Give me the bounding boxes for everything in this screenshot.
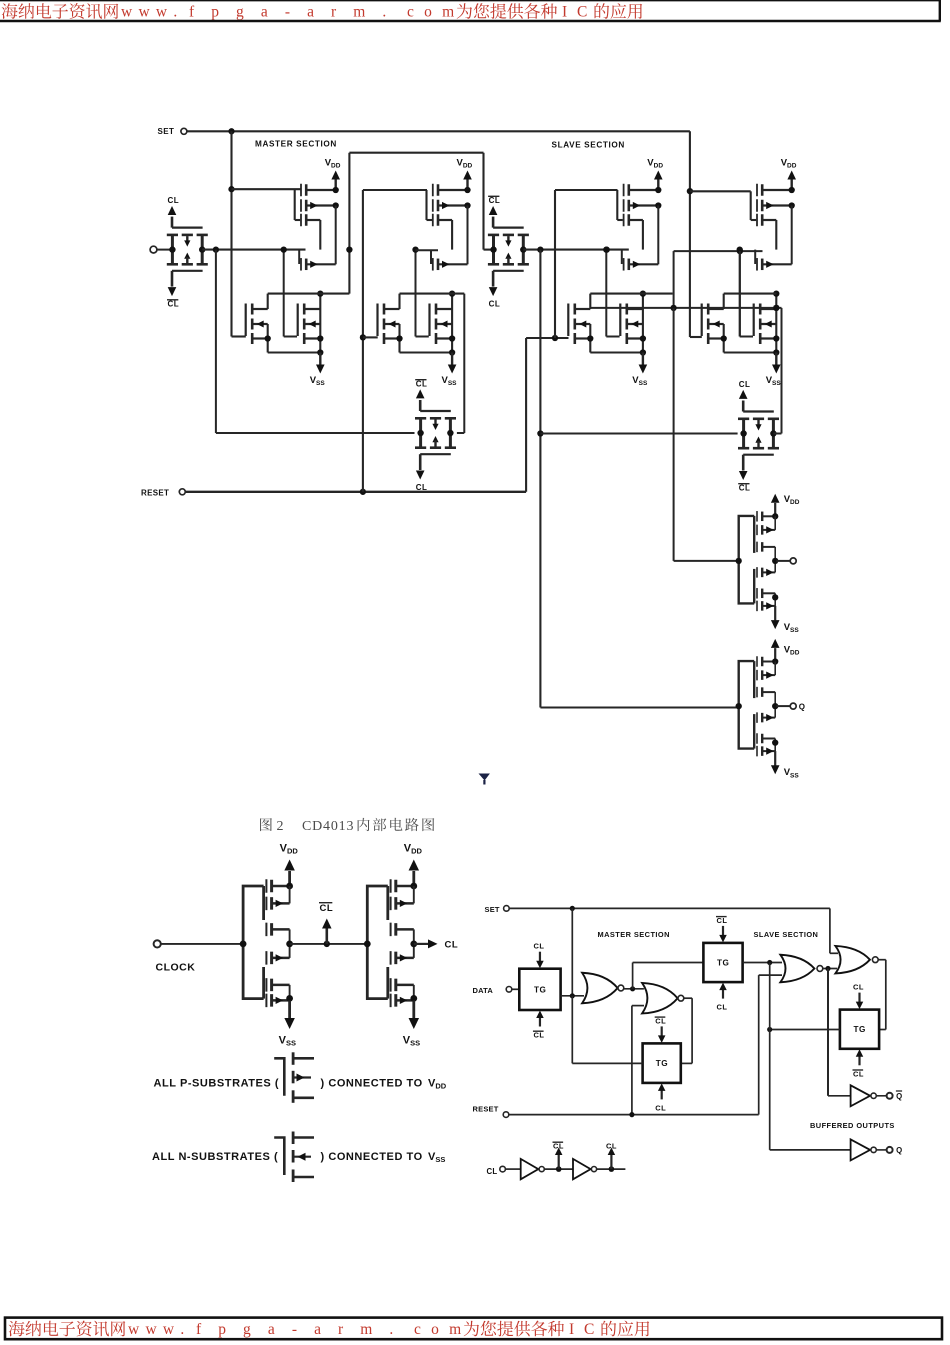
wire clock chain segment 1 [505, 1168, 520, 1170]
block block TG C [703, 943, 742, 982]
block TG B top clock arrow [658, 1026, 666, 1043]
Vdd arrow of slave gate 2 [787, 171, 796, 192]
wires drain rail of output buffer 1 [772, 513, 778, 606]
wire P1-P3 gate bracket of master gate 2 [427, 190, 433, 220]
transistor P2 of output buffer 1 [757, 525, 775, 536]
TG3 top clock label [415, 380, 427, 389]
transistor N1 of clock inverter 1 [266, 951, 289, 965]
wire Vdd rail of slave gate 2 [791, 206, 793, 265]
transistor N2 of clock inverter 2 [391, 978, 414, 992]
TG3 bottom clock bracket and arrow [416, 454, 451, 479]
label SET (block diagram) [485, 905, 500, 914]
gate bar of N1/N2 of slave gate 2 [701, 304, 703, 337]
wire clock input [161, 943, 243, 945]
inverter clock chain 2 [573, 1159, 597, 1179]
wire TG C out to NOR3 [743, 960, 782, 965]
Vdd label of slave gate 2 [781, 158, 797, 170]
svg-text:VSS: VSS [403, 1035, 420, 1048]
wire TG2 output to slave [523, 246, 629, 252]
Vss label of slave gate 1 [632, 375, 648, 387]
wire data input [157, 249, 172, 251]
transistors N1,N2 of master gate 1 [252, 304, 268, 345]
node P2 drain of slave gate 2 [789, 202, 795, 208]
transmission gate TG4 centre dashed bar [753, 419, 764, 448]
transistor N1 of output buffer 1 [757, 567, 775, 578]
Vdd arrow of slave gate 1 [654, 171, 663, 192]
top banner text [2, 3, 643, 20]
transistor N2 of clock inverter 1 [266, 978, 289, 992]
TG1 top clock label [168, 196, 180, 205]
wires N3,N4 drain/source of slave gate 1 [640, 290, 646, 352]
wire source bus of slave gate 1 [590, 349, 646, 355]
svg-text:CL: CL [487, 1167, 498, 1176]
node P1 drain of slave gate 2 [789, 187, 795, 193]
transistors N3,N4 of master gate 2 [436, 304, 452, 345]
block TG C top clock label [716, 916, 728, 925]
transmission gate TG3 centre dashed bar [430, 418, 441, 447]
svg-text:BUFFERED OUTPUTS: BUFFERED OUTPUTS [810, 1121, 895, 1130]
transistor P2 of slave gate 2 [757, 199, 792, 212]
node P2 drain of master gate 1 [333, 202, 339, 208]
svg-text:VSS: VSS [784, 767, 800, 779]
Vss label of master gate 2 [442, 375, 458, 387]
wire input to N3/N4 gate of master gate 2 [412, 246, 428, 336]
transistors N1,N2 of master gate 2 [384, 304, 400, 345]
wire clock inverter1 out / CL-bar tap [290, 919, 368, 948]
label output buffer 2 output [799, 703, 805, 712]
transistor P1 of clock inverter 2 [391, 879, 414, 893]
transmission gate TG1 centre dashed bar [182, 235, 193, 264]
wire slave input bus [537, 250, 738, 708]
svg-text:VDD: VDD [457, 158, 473, 170]
svg-text:VSS: VSS [442, 375, 458, 387]
Vss label of output buffer 1 [784, 622, 800, 634]
wire P1-P3 gate bracket of master gate 1 [295, 189, 301, 220]
Vdd label of master gate 2 [457, 158, 473, 170]
Vss label of output buffer 2 [784, 767, 800, 779]
transistors N3,N4 of slave gate 2 [760, 304, 776, 345]
block TG D top clock label [853, 983, 864, 992]
svg-text:MASTER SECTION: MASTER SECTION [255, 139, 337, 148]
CL tap arrow [608, 1148, 616, 1170]
TG4 bottom clock label [738, 484, 750, 493]
wires N1,N2 drain/source of master gate 2 [396, 294, 402, 353]
label CL tap (chain) [606, 1142, 617, 1151]
transistor N1 of output buffer 2 [757, 712, 775, 723]
wire RESET net (block diagram) [509, 975, 782, 1117]
gate NOR4 [835, 946, 878, 974]
transistor P3 of slave gate 2 [757, 214, 776, 227]
bottom banner box [5, 1318, 942, 1340]
output terminal of output buffer 2 [776, 703, 796, 709]
wire output node of master gate 2 [400, 293, 465, 295]
svg-text:RESET: RESET [473, 1104, 499, 1113]
svg-text:Q: Q [896, 1146, 902, 1155]
svg-text:w w w .: w w w . [128, 1321, 185, 1338]
wire TG1 output [202, 246, 305, 252]
svg-text:TG: TG [656, 1059, 668, 1068]
TG1 bottom clock bracket and arrow [168, 271, 203, 296]
svg-text:VSS: VSS [310, 375, 326, 387]
gate bar of N3/N4 of master gate 2 [428, 304, 430, 337]
gate NOR1 [582, 973, 624, 1004]
svg-text:VDD: VDD [784, 494, 800, 506]
inverter clock chain 1 [521, 1159, 545, 1179]
transistor P3 of output buffer 2 [757, 687, 775, 698]
svg-text:CD4013: CD4013 [302, 819, 354, 834]
transistor P3 of master gate 2 [433, 214, 452, 227]
wire P3 source to input node of slave gate 1 [642, 220, 644, 250]
transistor P1 of output buffer 2 [757, 656, 775, 667]
svg-text:VDD: VDD [404, 843, 423, 856]
svg-text:SLAVE SECTION: SLAVE SECTION [552, 140, 625, 149]
transmission gate TG4 left bar [738, 419, 749, 448]
terminal CLOCK [154, 940, 161, 947]
transistor N3 of output buffer 2 [757, 746, 775, 757]
transistor N1 of clock inverter 2 [391, 951, 414, 965]
svg-text:CL: CL [489, 196, 501, 205]
block block TG B [643, 1043, 681, 1083]
wire master feedback bus [216, 250, 415, 433]
terminal SET [181, 128, 187, 134]
input gate bracket of clock inverter 1 [240, 886, 264, 999]
wires N3,N4 drain/source of master gate 1 [317, 290, 323, 352]
input gate bracket of output buffer 2 [736, 661, 755, 749]
wire source bus of master gate 2 [400, 349, 456, 355]
wire slave node to Q buffer [770, 1149, 851, 1151]
Vdd label of master gate 1 [325, 158, 341, 170]
wire master gate1 output loop [346, 153, 493, 294]
N-substrate symbol gate bracket [274, 1138, 284, 1176]
label RESET [141, 488, 169, 497]
svg-text:CL: CL [416, 483, 428, 492]
P-substrate symbol transistor symbol [293, 1052, 314, 1103]
note P connected text [321, 1078, 447, 1091]
block TG D top clock arrow [856, 993, 864, 1010]
svg-text:VDD: VDD [280, 843, 299, 856]
svg-text:I C: I C [562, 4, 590, 21]
Vdd arrow of master gate 2 [463, 171, 472, 192]
svg-text:VDD: VDD [647, 158, 663, 170]
svg-text:) CONNECTED TO: ) CONNECTED TO [321, 1078, 423, 1090]
wire RESET to master gate B [360, 190, 427, 492]
Vdd label of clock inverter 2 [404, 843, 423, 856]
wire Vdd rail of master gate 2 [467, 206, 469, 265]
input gate bracket of clock inverter 2 [364, 886, 388, 999]
block TG A top clock arrow [536, 952, 544, 969]
label CL-bar tap (chain) [553, 1142, 565, 1151]
wire input to N3/N4 gate of slave gate 2 [737, 246, 753, 336]
label Q buffer output [896, 1146, 902, 1155]
transistor P1 of slave gate 2 [757, 184, 792, 197]
figure caption: 图2 CD4013 内部电路图 [260, 818, 434, 834]
gate NOR3 [780, 955, 822, 983]
Vss arrow of master gate 2 [448, 353, 457, 374]
transmission gate TG1 left bar [167, 235, 178, 264]
output terminal of output buffer 1 [776, 558, 796, 564]
svg-text:c o m: c o m [414, 1321, 464, 1338]
svg-text:CL: CL [445, 940, 459, 951]
label BUFFERED OUTPUTS [810, 1121, 895, 1130]
wire P4 gate feed of slave gate 2 [754, 250, 756, 264]
wire P3 source to input node of master gate 1 [319, 220, 321, 250]
TG2 top clock bracket and arrow [489, 206, 524, 228]
N-substrate symbol transistor symbol [293, 1132, 314, 1183]
Q buffer output terminal [876, 1147, 892, 1153]
block TG C top clock arrow [719, 926, 727, 943]
svg-text:DATA: DATA [473, 986, 494, 995]
terminal CL (clock chain) [500, 1166, 506, 1172]
svg-text:CL: CL [739, 380, 751, 389]
CL-bar tap arrow [555, 1148, 563, 1170]
transistor P1 of master gate 1 [301, 184, 336, 197]
wire SET to slave gate D [687, 131, 751, 337]
label CL (clock chain) [487, 1167, 498, 1176]
TG2 bottom clock bracket and arrow [489, 271, 524, 296]
wire NOR2 out to TG B [681, 998, 692, 1063]
wire input to N3/N4 gate of slave gate 1 [603, 246, 619, 336]
svg-text:TG: TG [717, 959, 729, 968]
svg-text:SET: SET [158, 127, 175, 136]
transistor P4 of slave gate 2 [757, 258, 792, 271]
node P1 drain of slave gate 1 [655, 187, 661, 193]
label DATA [473, 986, 494, 995]
wire CL output arrow [414, 939, 438, 948]
svg-text:CL: CL [489, 300, 501, 309]
svg-text:VSS: VSS [279, 1035, 296, 1048]
P-substrate symbol gate bracket [274, 1058, 284, 1096]
TG1 bottom clock label [167, 300, 179, 309]
transistor P1 of output buffer 1 [757, 511, 775, 522]
wire slave latch node [590, 305, 781, 311]
svg-text:VSS: VSS [632, 375, 648, 387]
TG1 top clock bracket and arrow [168, 206, 203, 228]
Vdd label of slave gate 1 [647, 158, 663, 170]
Vss label of slave gate 2 [766, 375, 782, 387]
transistor P4 of slave gate 1 [624, 258, 659, 271]
page top rule [0, 0, 940, 2]
svg-text:CL: CL [717, 1003, 728, 1012]
wire TG4 output up to slave latch [773, 308, 781, 434]
gate bar of N3/N4 of slave gate 2 [753, 304, 755, 337]
block TG D bottom clock arrow [856, 1049, 864, 1065]
Vdd arrow of output buffer 1 [771, 494, 780, 517]
transistor P2 of slave gate 1 [624, 199, 659, 212]
wire Vdd rail of master gate 1 [335, 206, 337, 265]
wire RESET bus [186, 489, 527, 495]
label Q-bar buffer output [896, 1091, 902, 1101]
label CL output [445, 940, 459, 951]
transistor P1 of slave gate 1 [624, 184, 659, 197]
Vdd label of clock inverter 1 [280, 843, 299, 856]
wires drain rail of output buffer 2 [772, 658, 778, 751]
wires N1,N2 drain/source of slave gate 2 [721, 294, 727, 353]
transistor P2 of master gate 2 [433, 199, 468, 212]
wire NOR3 out to Q-bar buffer [828, 969, 851, 1096]
wire TG B out to data node [572, 996, 642, 1064]
gate bar of N1/N2 of master gate 1 [245, 304, 247, 337]
svg-text:TG: TG [854, 1025, 866, 1034]
wire RESET to NOR2 [632, 1006, 644, 1115]
wire DATA to TG1 block [512, 988, 520, 990]
wire slave node to buffer 1 [674, 308, 739, 561]
block TG A bottom clock label [533, 1031, 545, 1040]
transmission gate TG3 right bar [445, 418, 456, 447]
Vdd arrow of clock inverter 2 [409, 860, 420, 887]
transmission gate TG2 right bar [518, 235, 529, 264]
TG2 bottom clock label [489, 300, 501, 309]
node P2 drain of slave gate 1 [655, 202, 661, 208]
note ALL N-SUBSTRATES text [152, 1151, 278, 1163]
svg-text:VDD: VDD [784, 645, 800, 657]
node P2 drain of master gate 2 [464, 202, 470, 208]
svg-text:f p g a - a r m .: f p g a - a r m . [189, 4, 393, 21]
svg-text:Q: Q [896, 1092, 902, 1101]
label MASTER SECTION (block diagram) [598, 930, 670, 939]
transistors N1,N2 of slave gate 2 [708, 304, 724, 345]
wire input to N3/N4 gate of master gate 1 [281, 246, 297, 336]
gate bar of N1/N2 of master gate 2 [376, 304, 378, 337]
transistor N2 of output buffer 1 [757, 588, 775, 599]
transmission gate TG2 centre dashed bar [503, 235, 514, 264]
wire NOR3 out to NOR4 [823, 966, 837, 971]
wires drain rail of clock inverter 1 [286, 883, 293, 1002]
gate bar of N3/N4 of master gate 1 [297, 304, 299, 337]
svg-text:Q: Q [799, 703, 805, 712]
svg-text:ALL N-SUBSTRATES (: ALL N-SUBSTRATES ( [152, 1151, 278, 1163]
wire clock chain segment 3 [597, 1166, 626, 1172]
wire TG A out to NOR1 [561, 993, 584, 998]
block block TG A [519, 969, 560, 1010]
svg-text:MASTER SECTION: MASTER SECTION [598, 930, 670, 939]
label SET [158, 127, 175, 136]
Q-bar buffer output terminal [876, 1093, 892, 1099]
gate NOR2 [642, 983, 684, 1014]
wire P4 gate feed of slave gate 1 [621, 250, 623, 264]
terminal RESET [179, 489, 185, 495]
transistor P2 of clock inverter 2 [391, 897, 414, 911]
label SLAVE SECTION [552, 140, 625, 149]
Vss arrow of clock inverter 2 [409, 1000, 420, 1029]
Vdd label of output buffer 2 [784, 645, 800, 657]
Vss arrow of output buffer 1 [771, 606, 780, 629]
gate bar of N1/N2 of slave gate 1 [567, 304, 569, 337]
svg-text:CL: CL [533, 942, 544, 951]
TG2 top clock label [488, 196, 500, 205]
wire P1-P3 gate bracket of slave gate 1 [617, 190, 623, 220]
terminal SET (block diagram) [504, 906, 510, 912]
transistor P4 of master gate 2 [433, 258, 468, 271]
transistor P2 of master gate 1 [301, 199, 336, 212]
svg-text:CL: CL [739, 484, 751, 493]
transistor P3 of slave gate 1 [624, 214, 643, 227]
wire slave node to TG D [767, 963, 840, 1150]
svg-text:VDD: VDD [325, 158, 341, 170]
svg-text:CL: CL [168, 196, 180, 205]
TG4 bottom clock bracket and arrow [739, 455, 774, 480]
Vdd arrow of clock inverter 1 [284, 860, 295, 887]
wire P3 source to input node of master gate 2 [451, 220, 453, 250]
svg-text:VSS: VSS [766, 375, 782, 387]
terminal RESET [503, 1112, 509, 1118]
svg-text:CL: CL [606, 1142, 617, 1151]
gate bar of N3/N4 of slave gate 1 [619, 304, 621, 337]
label SLAVE SECTION (block diagram) [754, 930, 819, 939]
TG3 top clock bracket and arrow [416, 389, 451, 411]
block block TG D [840, 1010, 879, 1049]
TG4 top clock bracket and arrow [739, 390, 774, 412]
svg-text:VDD: VDD [428, 1078, 447, 1091]
svg-text:CLOCK: CLOCK [156, 962, 196, 974]
svg-text:SET: SET [485, 905, 500, 914]
inverter Q-bar buffer [851, 1085, 877, 1106]
Vdd arrow of output buffer 2 [771, 639, 780, 662]
label CL-bar tap [319, 903, 333, 914]
wire slave gate2 input [674, 248, 763, 337]
block TG C bottom clock label [717, 1003, 728, 1012]
TG4 top clock label [739, 380, 751, 389]
Vss arrow of clock inverter 1 [284, 1000, 295, 1029]
svg-text:SLAVE SECTION: SLAVE SECTION [754, 930, 819, 939]
navy pointer marker [479, 774, 490, 785]
Vss label of master gate 1 [310, 375, 326, 387]
Vss arrow of slave gate 2 [772, 353, 781, 374]
svg-text:c o m: c o m [407, 4, 457, 21]
svg-text:CL: CL [168, 300, 180, 309]
transmission gate TG4 right bar [768, 419, 779, 448]
wire master gate2 input [415, 249, 438, 251]
wires N3,N4 drain/source of master gate 2 [449, 290, 455, 352]
Vdd label of output buffer 1 [784, 494, 800, 506]
wire NOR4 out to TG D [878, 960, 886, 1030]
svg-text:CL: CL [853, 983, 864, 992]
Vss arrow of master gate 1 [316, 353, 325, 374]
transistors N3,N4 of master gate 1 [304, 304, 320, 345]
wire SET net (block diagram) [509, 906, 838, 996]
block TG B top clock label [655, 1016, 667, 1025]
wire clock chain segment 2 [544, 1166, 573, 1172]
svg-text:TG: TG [534, 985, 546, 994]
svg-text:VSS: VSS [428, 1151, 445, 1164]
wires N3,N4 drain/source of slave gate 2 [773, 290, 779, 352]
label MASTER SECTION [255, 139, 337, 148]
transistor P2 of clock inverter 1 [266, 897, 289, 911]
wire output node of slave gate 2 [724, 293, 777, 295]
svg-text:VDD: VDD [781, 158, 797, 170]
svg-text:RESET: RESET [141, 488, 169, 497]
transmission gate TG3 left bar [415, 418, 426, 447]
wire source bus of slave gate 2 [724, 349, 780, 355]
transistor N2 of output buffer 2 [757, 733, 775, 744]
wire P4 gate feed of master gate 1 [298, 250, 300, 264]
svg-text:VSS: VSS [784, 622, 800, 634]
wire RESET to slave gate C [526, 190, 617, 492]
block TG B bottom clock label [655, 1103, 666, 1112]
Vss arrow of output buffer 2 [771, 751, 780, 774]
TG3 bottom clock label [416, 483, 428, 492]
wire output node of slave gate 1 [590, 293, 672, 295]
block TG B bottom clock arrow [658, 1083, 666, 1099]
wires N1,N2 drain/source of master gate 1 [265, 294, 271, 353]
transistor P1 of clock inverter 1 [266, 879, 289, 893]
transistor P2 of output buffer 2 [757, 670, 775, 681]
block TG D bottom clock label [853, 1069, 865, 1078]
transistor P3 of master gate 1 [301, 214, 320, 227]
transistor N3 of clock inverter 2 [391, 994, 414, 1008]
transistors N3,N4 of slave gate 1 [627, 304, 643, 345]
page top-right border stub [939, 0, 941, 21]
wire Vdd rail of slave gate 1 [657, 206, 659, 265]
